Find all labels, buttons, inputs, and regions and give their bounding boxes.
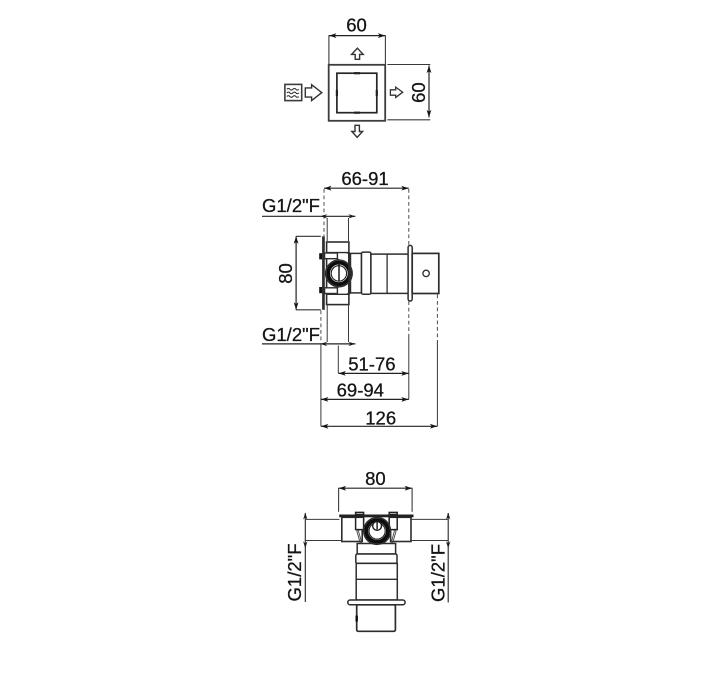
neck: [357, 544, 395, 555]
water icon wave 1: [287, 88, 299, 90]
cartridge outer circle: [326, 260, 353, 287]
fillet bottom port to stem: [349, 292, 352, 295]
clip above plate left: [356, 512, 364, 514]
flank left inner: [359, 520, 365, 544]
svg-text:G1/2"F: G1/2"F: [262, 195, 320, 216]
flank left outer: [357, 519, 363, 544]
stem collar: [356, 554, 397, 563]
flank right outer: [390, 519, 396, 544]
svg-text:69-94: 69-94: [337, 379, 384, 400]
witness port left: [326, 218, 328, 241]
bottom collar: [325, 288, 338, 294]
dimension 80 line: [295, 236, 297, 309]
body right edge over circle: [348, 253, 350, 295]
handle: [412, 253, 439, 293]
right G1/2"F dim line: [447, 513, 449, 603]
top port divider: [327, 252, 349, 254]
water icon wave 2: [287, 92, 299, 94]
svg-text:51-76: 51-76: [348, 353, 395, 374]
clip bottom (black): [319, 287, 322, 293]
clip below plate right: [389, 517, 397, 529]
flange (plan, edge-on): [348, 600, 405, 605]
dimension 69-94 line: [321, 398, 409, 400]
witness line left of 60 top: [328, 35, 330, 64]
svg-text:60: 60: [346, 14, 367, 35]
cartridge screw circle (bottom view): [373, 522, 382, 531]
dimension 60 (top) line: [329, 35, 386, 37]
stem section C+D: [371, 254, 408, 293]
witness 51-76 left: [337, 346, 339, 374]
dimension 80 line (bottom view): [339, 487, 413, 489]
cartridge inner circle (bottom view): [369, 523, 385, 539]
left G arrow upper (tip down): [303, 513, 307, 520]
handle hole: [423, 270, 429, 276]
clip top (black): [319, 253, 322, 259]
dashed extension left (wall): [323, 189, 325, 236]
stem section divider: [386, 254, 388, 293]
clip below plate left: [356, 517, 364, 529]
cartridge slot: [338, 262, 340, 281]
fillet bottom collar diag: [337, 283, 344, 287]
leader arrow right (tip at port right edge): [348, 214, 355, 218]
extension right flange lower solid: [408, 335, 410, 399]
svg-text:66-91: 66-91: [341, 168, 388, 189]
svg-text:G1/2"F: G1/2"F: [428, 544, 449, 602]
port right: [391, 517, 411, 541]
right G ext lower: [410, 540, 448, 542]
bottom port divider: [327, 293, 349, 295]
fillet top port to stem: [349, 253, 352, 256]
left G arrow lower (tip up): [303, 541, 307, 548]
mounting plate (plan, edge-on): [339, 515, 413, 518]
leader arrow right bottom: [348, 342, 355, 346]
stem section B: [362, 252, 371, 294]
witness 80 right: [411, 488, 413, 512]
fillet bottom port to stem inner: [347, 290, 352, 294]
witness 80 left: [338, 488, 340, 512]
dimension 66-91 line: [324, 187, 409, 189]
dimension 51-76 line: [338, 372, 409, 374]
extension handle right solid: [436, 340, 438, 426]
leader line G1/2"F top: [262, 215, 355, 217]
leader line G1/2"F bottom: [262, 343, 355, 345]
stem barrel divider: [356, 578, 397, 580]
svg-text:G1/2"F: G1/2"F: [284, 544, 305, 602]
extension left lower solid: [320, 344, 322, 426]
leader arrow left bottom: [320, 342, 327, 346]
dimension 80 ext top: [296, 235, 321, 237]
wall plate (edge-on): [322, 236, 325, 309]
dashed extension right (flange): [408, 189, 410, 245]
dimension 80 ext bottom: [296, 309, 321, 311]
svg-text:60: 60: [408, 82, 429, 103]
flank right inner: [389, 520, 395, 544]
fillet top port to stem inner: [347, 253, 352, 257]
handle (plan): [357, 605, 396, 632]
handle hole (edge tick): [356, 616, 358, 622]
right G arrow upper (tip down): [446, 513, 450, 520]
witness port right: [348, 218, 350, 241]
dimension 60 (right) line: [428, 66, 430, 118]
right outlet arrow (pointing right): [390, 87, 402, 97]
tick right of inner square: [376, 90, 378, 96]
water icon wave 3: [287, 96, 299, 98]
right G arrow lower (tip up): [446, 541, 450, 548]
svg-text:126: 126: [365, 407, 396, 428]
left G ext lower: [305, 540, 342, 542]
tick bottom of inner square: [354, 112, 360, 114]
down arrow (outlet down): [352, 125, 363, 137]
tick left of inner square: [336, 90, 338, 96]
witness port left bottom: [326, 306, 328, 343]
top collar: [325, 253, 338, 259]
svg-text:G1/2"F: G1/2"F: [262, 324, 320, 345]
port left: [342, 517, 362, 541]
stem A left edge over circle: [349, 253, 351, 293]
flange (escutcheon edge-on): [408, 245, 412, 301]
water icon square: [285, 84, 302, 100]
witness port right bottom: [348, 306, 350, 343]
cartridge inner circle: [331, 266, 346, 281]
left G1/2"F dim line: [304, 513, 306, 602]
dimension 60 (right) ext line bottom: [387, 119, 430, 121]
stem section A: [350, 253, 361, 293]
clip above plate right: [389, 512, 397, 514]
inlet arrow (left, pointing right): [305, 85, 322, 101]
cartridge outer circle (bottom view): [364, 518, 391, 545]
stem barrel: [356, 563, 397, 600]
witness line right of 60 top: [384, 35, 386, 64]
svg-text:80: 80: [275, 263, 296, 284]
outer square plate: [329, 65, 386, 121]
dimension 126 line: [321, 425, 438, 427]
right G ext upper: [410, 518, 448, 520]
up arrow (outlet up): [352, 48, 364, 59]
extension left lower (dashed then solid): [320, 311, 322, 345]
cartridge black ring (bottom view): [366, 520, 388, 542]
body outline: [327, 242, 349, 305]
fillet top collar diag: [337, 259, 344, 264]
inner square button: [337, 73, 377, 113]
tick top of inner square: [354, 72, 360, 74]
extension handle right dashed: [436, 295, 438, 341]
leader arrow left (tip at port left edge): [320, 214, 327, 218]
left G ext upper: [305, 518, 339, 520]
cartridge black ring: [328, 263, 350, 285]
dimension 60 (right) ext line top: [387, 64, 430, 66]
svg-text:80: 80: [365, 468, 386, 489]
cartridge tick (bottom view): [376, 522, 378, 530]
extension right flange lower dashed: [408, 301, 410, 335]
